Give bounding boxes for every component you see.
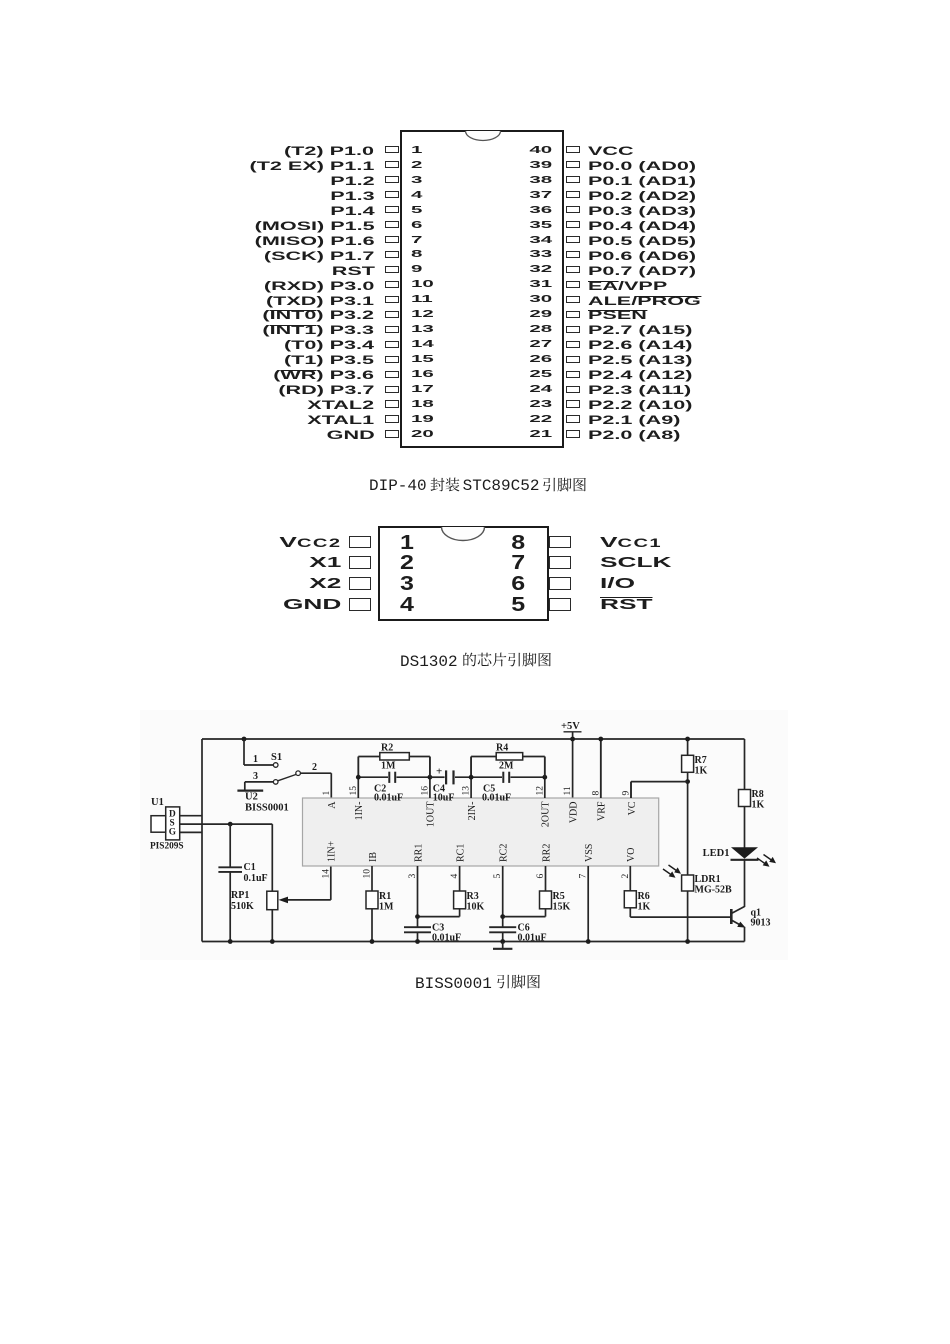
U2 pin 12 2OUT (top) (544, 757, 546, 799)
svg-text:1K: 1K (752, 800, 765, 811)
switch S1 arm (278, 774, 296, 780)
capacitor C2 0.01uF (358, 776, 388, 778)
U2 pin 8 VRF (top) (600, 739, 602, 798)
pin-1 index notch (440, 527, 486, 542)
svg-text:MG-52B: MG-52B (695, 885, 733, 896)
svg-text:R2: R2 (381, 743, 393, 754)
pin 6 I/O (right) (511, 573, 525, 595)
svg-text:9: 9 (622, 791, 632, 796)
switch S1 pole 3 stub (245, 781, 273, 783)
svg-text:0.01uF: 0.01uF (518, 933, 547, 944)
svg-text:+5V: +5V (561, 721, 580, 732)
resistor R4 2M (470, 757, 472, 778)
pin 14 (T0) P3.4 (left) (284, 338, 374, 352)
capacitor C5 0.01uF (471, 776, 502, 778)
wire: bottom ground rail (202, 941, 745, 943)
svg-text:14: 14 (321, 869, 331, 879)
svg-text:12: 12 (535, 786, 545, 796)
pin 29 PSEN (right) (529, 309, 552, 321)
svg-text:R3: R3 (467, 891, 479, 902)
pin 1 (T2) P1.0 (left) (284, 144, 374, 158)
svg-text:U2: U2 (245, 792, 258, 803)
svg-text:RR1: RR1 (413, 844, 424, 862)
svg-text:VC: VC (627, 801, 638, 815)
pin 9 RST (left) (331, 264, 374, 278)
capacitor C4 10uF (+) (430, 776, 445, 778)
transistor q1 9013 (730, 909, 733, 924)
pin 35 P0.4 (AD4) (right) (529, 220, 552, 232)
pin 30 ALE/PROG (right) (529, 294, 552, 306)
wire: U1 G pin to left frame (180, 831, 202, 833)
resistor R6 1K (629, 866, 631, 891)
svg-text:0.01uF: 0.01uF (374, 793, 403, 804)
pin 8 (SCK) P1.7 (left) (264, 249, 374, 263)
svg-text:1IN+: 1IN+ (327, 840, 338, 862)
pin 24 P2.3 (A11) (right) (529, 384, 552, 396)
svg-text:13: 13 (462, 786, 472, 796)
pin 22 P2.1 (A9) (right) (529, 414, 552, 426)
pin 32 P0.7 (AD7) (right) (529, 264, 552, 276)
pin 18 XTAL2 (left) (308, 398, 375, 412)
svg-text:5: 5 (493, 874, 503, 879)
pin 11 (TXD) P3.1 (left) (266, 294, 374, 308)
pin 33 P0.6 (AD6) (right) (529, 249, 552, 261)
svg-text:11: 11 (563, 786, 573, 795)
pin 13 (INT1) P3.3 (left) (263, 323, 375, 337)
pin 28 P2.7 (A15) (right) (529, 324, 552, 336)
pin 16 (WR) P3.6 (left) (274, 368, 375, 382)
svg-text:7: 7 (579, 874, 589, 879)
svg-text:1M: 1M (379, 902, 394, 913)
pin 5 P1.4 (left) (330, 204, 374, 218)
svg-text:G: G (169, 827, 176, 837)
svg-text:VO: VO (626, 848, 637, 862)
svg-text:2IN-: 2IN- (467, 802, 478, 821)
pin 21 P2.0 (A8) (right) (529, 429, 552, 441)
pin 38 P0.1 (AD1) (right) (529, 175, 552, 187)
pin 17 (RD) P3.7 (left) (278, 383, 374, 397)
svg-text:6: 6 (536, 874, 546, 879)
svg-text:0.1uF: 0.1uF (244, 873, 268, 884)
svg-text:A: A (327, 801, 338, 809)
pin 27 P2.6 (A14) (right) (529, 339, 552, 351)
svg-text:RP1: RP1 (231, 890, 249, 901)
LED1 emitted light arrows (757, 855, 774, 866)
pin 10 (RXD) P3.0 (left) (264, 279, 374, 293)
photoresistor LDR1 MG-52B (682, 875, 694, 891)
svg-text:2OUT: 2OUT (541, 802, 552, 828)
wire: S1 pin2 to U2 pin1 (300, 772, 331, 774)
svg-text:15: 15 (349, 786, 359, 796)
IC U2 BISS0001 body (303, 798, 659, 866)
pin 26 P2.5 (A13) (right) (529, 354, 552, 366)
wire: U1 S pin to C1/RP1 (180, 823, 273, 825)
svg-text:3: 3 (253, 771, 258, 782)
caption: BISS0001 pinout (415, 974, 541, 994)
resistor R1 1M (371, 866, 373, 891)
capacitor C6 0.01uF (502, 866, 504, 927)
pin 15 (T1) P3.5 (left) (284, 353, 374, 367)
pin 31 EA/VPP (right) (529, 279, 552, 291)
U2 pin 13 2IN- (top) (470, 757, 472, 799)
svg-text:2: 2 (621, 874, 631, 879)
svg-text:15K: 15K (553, 902, 571, 913)
resistor R8 1K (739, 790, 751, 807)
resistor R7 1K (687, 739, 689, 755)
ground symbol (502, 942, 504, 949)
svg-text:RC2: RC2 (499, 844, 510, 862)
svg-text:1: 1 (322, 791, 332, 796)
svg-text:BISS0001: BISS0001 (245, 803, 289, 814)
svg-text:PIS209S: PIS209S (150, 842, 184, 852)
svg-text:1M: 1M (381, 761, 396, 772)
wire: U2 pin16 stub upper (429, 757, 431, 778)
pin 3 P1.2 (left) (330, 174, 374, 188)
svg-text:R5: R5 (553, 891, 565, 902)
pin 40 VCC (right) (529, 145, 552, 157)
svg-text:1K: 1K (638, 902, 651, 913)
pin 19 XTAL1 (left) (308, 413, 375, 427)
switch S1 (242, 737, 247, 742)
svg-text:+: + (436, 766, 442, 778)
svg-text:IB: IB (368, 852, 379, 862)
svg-text:10K: 10K (467, 902, 485, 913)
pin 34 P0.5 (AD5) (right) (529, 235, 552, 247)
pin 3 X2 (left) (310, 575, 342, 593)
pin 2 (T2 EX) P1.1 (left) (250, 159, 375, 173)
caption: DIP-40 STC89C52 pinout (369, 476, 587, 496)
svg-text:2M: 2M (499, 761, 514, 772)
U2 pin 15 1IN- (top) (357, 757, 359, 799)
svg-text:2: 2 (312, 762, 317, 773)
svg-text:LDR1: LDR1 (695, 874, 721, 885)
svg-text:1OUT: 1OUT (426, 802, 437, 828)
svg-text:R7: R7 (695, 755, 707, 766)
svg-text:R8: R8 (752, 789, 764, 800)
wire: VSS pin7 to ground rail (587, 866, 589, 942)
svg-text:8: 8 (591, 791, 601, 796)
pin 5 RST (right) (511, 594, 525, 616)
svg-text:R1: R1 (379, 891, 391, 902)
IC DS1302 DIP-8 package body (378, 526, 549, 621)
capacitor C1 0.1uF (229, 824, 231, 867)
wire: U2 pin12 stub upper (544, 757, 546, 778)
wire: VC pin9 to R7 bottom (630, 782, 632, 798)
pin 1 Vcc2 (left) (280, 534, 342, 552)
svg-text:VRF: VRF (597, 801, 608, 821)
pin-1 index notch (464, 131, 502, 142)
svg-text:C1: C1 (244, 862, 256, 873)
svg-text:1IN-: 1IN- (354, 802, 365, 821)
pin 7 (MISO) P1.6 (left) (254, 234, 374, 248)
pin 6 (MOSI) P1.5 (left) (254, 219, 374, 233)
wire: top supply rail (202, 738, 745, 740)
pin 7 SCLK (right) (511, 552, 525, 574)
svg-text:VDD: VDD (568, 802, 579, 824)
svg-text:S1: S1 (271, 752, 282, 763)
svg-text:510K: 510K (231, 901, 254, 912)
pin 8 Vcc1 (right) (511, 532, 525, 554)
capacitor C3 0.01uF (417, 866, 419, 927)
svg-text:4: 4 (450, 874, 460, 879)
svg-text:1K: 1K (695, 766, 708, 777)
pin 2 X1 (left) (310, 554, 342, 572)
pin 37 P0.2 (AD2) (right) (529, 190, 552, 202)
wire: left frame (201, 739, 203, 942)
svg-text:10: 10 (363, 869, 373, 879)
svg-text:R6: R6 (638, 891, 650, 902)
pin 39 P0.0 (AD0) (right) (529, 160, 552, 172)
U2 pin 16 1OUT (top) (429, 757, 431, 799)
pin 4 P1.3 (left) (330, 189, 374, 203)
svg-text:VSS: VSS (584, 844, 595, 862)
svg-text:U1: U1 (151, 797, 164, 808)
svg-text:R4: R4 (496, 743, 508, 754)
RP1 wiper arrow from U2 pin14 (330, 866, 332, 900)
pin 20 GND (left) (326, 428, 374, 442)
svg-text:0.01uF: 0.01uF (432, 933, 461, 944)
wire: right branch (R8/LED1/q1) upper segment (744, 739, 746, 790)
pin 36 P0.3 (AD3) (right) (529, 205, 552, 217)
schematic background (140, 710, 788, 960)
LDR1 incident light arrows (663, 865, 679, 876)
pin 23 P2.2 (A10) (right) (529, 399, 552, 411)
resistor R3 10K (459, 866, 461, 891)
svg-text:1: 1 (253, 754, 258, 765)
svg-text:RR2: RR2 (541, 844, 552, 862)
svg-text:LED1: LED1 (703, 848, 730, 859)
pin 12 (INT0) P3.2 (left) (263, 308, 375, 322)
potentiometer RP1 510K (271, 824, 273, 891)
wire: VRF pin8 to top rail (600, 739, 602, 798)
svg-text:RC1: RC1 (455, 844, 466, 862)
U2 pin 9 VC (top) (630, 782, 632, 798)
caption: DS1302 chip pinout (400, 652, 552, 672)
wire: U1 D pin to left frame (180, 815, 202, 817)
resistor R5 15K (545, 866, 547, 891)
resistor R2 1M (357, 757, 359, 778)
svg-text:3: 3 (408, 874, 418, 879)
IC U-STC89C52 DIP-40 package body (400, 130, 564, 448)
wire: R6 to q1 base (630, 916, 731, 918)
LED1 (731, 847, 758, 858)
svg-text:9013: 9013 (751, 918, 771, 929)
svg-text:0.01uF: 0.01uF (482, 793, 511, 804)
pin 25 P2.4 (A12) (right) (529, 369, 552, 381)
svg-text:16: 16 (420, 786, 430, 796)
svg-text:10uF: 10uF (433, 793, 455, 804)
pin 4 GND (left) (283, 596, 341, 614)
